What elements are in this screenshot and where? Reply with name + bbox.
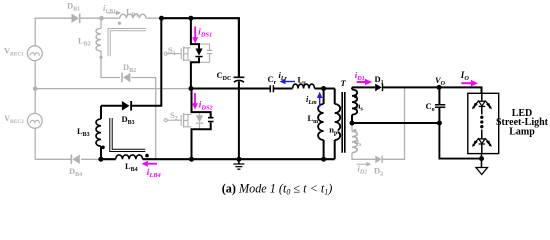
svg-text:iD1: iD1 — [355, 70, 365, 82]
svg-text:LB2: LB2 — [78, 36, 91, 48]
svg-text:iD2: iD2 — [358, 164, 368, 176]
svg-text:DB4: DB4 — [69, 166, 82, 178]
svg-text:D2: D2 — [374, 166, 383, 178]
svg-text:LB1: LB1 — [126, 7, 139, 19]
svg-text:VREC2: VREC2 — [4, 113, 24, 125]
svg-text:iDS1: iDS1 — [198, 27, 212, 39]
svg-text:Lm: Lm — [308, 113, 319, 125]
svg-text:DB1: DB1 — [67, 0, 80, 12]
svg-text:S1: S1 — [168, 45, 176, 57]
svg-text:Cr: Cr — [268, 74, 277, 86]
svg-text:(a) Mode 1 (t0 ≤ t < t1): (a) Mode 1 (t0 ≤ t < t1) — [222, 182, 333, 197]
svg-text:iLm: iLm — [306, 94, 317, 106]
svg-text:LB4: LB4 — [125, 161, 138, 173]
svg-text:iLr: iLr — [279, 70, 288, 82]
svg-text:DB3: DB3 — [122, 114, 135, 126]
svg-text:iLB1: iLB1 — [103, 3, 116, 15]
svg-text:VO: VO — [435, 75, 446, 87]
svg-text:VREC1: VREC1 — [4, 46, 24, 58]
svg-text:Co: Co — [426, 101, 435, 113]
svg-text:iDS2: iDS2 — [199, 99, 214, 111]
svg-text:LB3: LB3 — [77, 126, 90, 138]
svg-text:CDC: CDC — [217, 70, 232, 82]
svg-text:DB2: DB2 — [123, 62, 136, 74]
svg-text:Lamp: Lamp — [509, 127, 535, 138]
svg-text:IO: IO — [460, 70, 470, 82]
svg-text:iLB4: iLB4 — [147, 167, 161, 179]
svg-text:T: T — [341, 78, 347, 88]
